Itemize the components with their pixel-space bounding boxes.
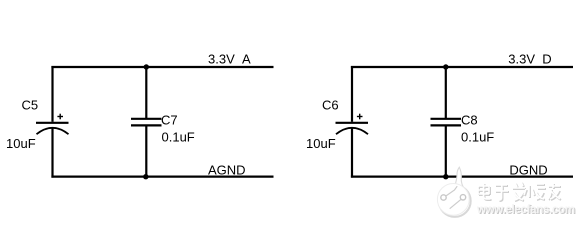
svg-text:0.1uF: 0.1uF: [162, 130, 195, 145]
svg-text:0.1uF: 0.1uF: [461, 130, 494, 145]
svg-text:www.elecfans.com: www.elecfans.com: [476, 204, 575, 216]
svg-text:3.3V A: 3.3V A: [208, 51, 251, 66]
svg-text:10uF: 10uF: [6, 136, 36, 151]
svg-text:3.3V D: 3.3V D: [508, 51, 551, 66]
svg-text:C8: C8: [461, 113, 478, 128]
svg-text:DGND: DGND: [509, 162, 547, 177]
svg-text:AGND: AGND: [208, 162, 246, 177]
svg-text:10uF: 10uF: [306, 136, 336, 151]
svg-text:C6: C6: [322, 97, 339, 112]
svg-text:C5: C5: [22, 97, 39, 112]
svg-text:C7: C7: [161, 113, 178, 128]
